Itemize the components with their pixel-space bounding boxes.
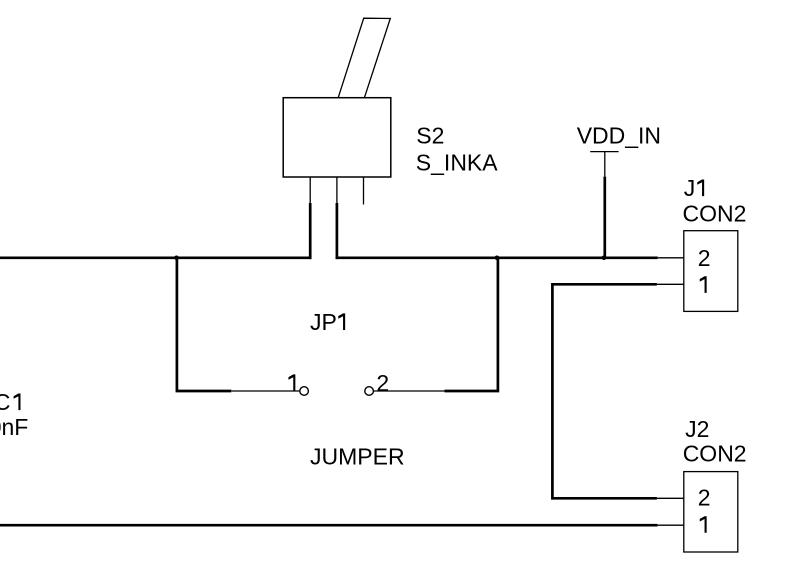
svg-text:2: 2: [698, 245, 711, 271]
junction at JP1 right drop: [495, 255, 500, 260]
svg-text:J2: J2: [685, 416, 709, 442]
wire: J1 pin1 to J2 pin2: [552, 284, 657, 498]
jumper JP1 pin 1 line: [231, 390, 300, 392]
junction at JP1 left drop: [174, 255, 179, 260]
connector J1 pin 1 stub: [657, 283, 684, 285]
wire: bus down-right to JP1 pin 2: [445, 257, 498, 392]
svg-text:S2: S2: [416, 122, 444, 148]
jumper JP1 pin 2 circle: [365, 387, 374, 396]
J2 pin number 1: [700, 516, 707, 533]
switch S2 pin 2: [336, 177, 338, 203]
power symbol VDD_IN bar: [590, 151, 618, 153]
svg-text:JUMPER: JUMPER: [310, 444, 405, 470]
JP1 pin number 1: [288, 374, 295, 391]
svg-text:CON2: CON2: [683, 441, 747, 467]
connector J2 pin 1 stub: [658, 524, 684, 526]
power symbol VDD_IN stub: [604, 152, 606, 177]
svg-text:C: C: [0, 389, 10, 415]
svg-text:2: 2: [698, 485, 711, 511]
wire: right bus from S2 pin2 to J1: [336, 256, 658, 259]
wire: left bus to S2 pin1: [0, 256, 312, 259]
switch S2 pin 3: [363, 177, 365, 205]
connector J1 body: [684, 231, 738, 312]
svg-text:VDD_IN: VDD_IN: [577, 122, 661, 148]
wire: VDD_IN down to bus: [603, 177, 606, 260]
jumper JP1 pin 1 circle: [300, 387, 309, 396]
svg-text:CON2: CON2: [683, 201, 747, 227]
jumper JP1 pin 2 line: [373, 390, 444, 392]
J1 pin number 1: [700, 276, 707, 293]
svg-text:100nF: 100nF: [0, 414, 28, 440]
wire: bus down-left to JP1 pin 1: [177, 257, 231, 392]
connector J1 pin 2 stub: [658, 257, 684, 259]
svg-text:J: J: [684, 175, 696, 201]
svg-text:S_INKA: S_INKA: [416, 149, 498, 175]
switch S2 pin 1: [309, 177, 311, 203]
wire: bottom net to J2 pin1: [0, 524, 658, 527]
wire: S2 pin2 down to bus: [336, 203, 339, 259]
wire: S2 pin1 down to bus: [309, 203, 312, 259]
connector J2 pin 2 stub: [657, 497, 684, 499]
switch S2 body: [283, 98, 391, 177]
svg-text:JP: JP: [310, 309, 337, 335]
connector J2 body: [684, 472, 738, 552]
svg-text:2: 2: [376, 370, 389, 396]
switch S2 lever: [338, 18, 390, 98]
junction at VDD_IN tap: [602, 255, 607, 260]
